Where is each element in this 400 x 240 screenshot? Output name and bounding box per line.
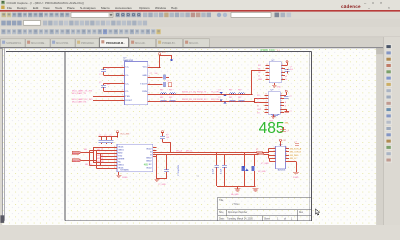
svg-text:Tools: Tools	[55, 6, 63, 10]
svg-text:8: 8	[266, 94, 267, 96]
svg-text:×: ×	[380, 1, 382, 5]
svg-text:DE/RE: DE/RE	[118, 158, 125, 160]
svg-text:FB?: FB?	[160, 97, 163, 99]
svg-text:cādence: cādence	[341, 4, 361, 9]
svg-text:VD_GND: VD_GND	[258, 171, 267, 173]
svg-text:RS232_TX_232: RS232_TX_232	[182, 92, 197, 94]
junction cap top	[170, 59, 172, 61]
svg-text:3: 3	[154, 153, 155, 155]
TVS diode D3	[244, 152, 246, 166]
svg-text:C?: C?	[167, 80, 169, 82]
svg-text:DGND: DGND	[122, 177, 128, 179]
svg-text:485_RX: 485_RX	[73, 161, 81, 163]
svg-text:MCU-CORE..: MCU-CORE..	[31, 42, 46, 45]
capacitor C1 (charge pump)	[103, 67, 124, 69]
svg-text:8: 8	[154, 150, 155, 152]
wire arc under U3	[272, 114, 279, 116]
svg-text:Sheet: Sheet	[264, 217, 270, 220]
svg-text:C?: C?	[104, 135, 106, 137]
svg-text:4: 4	[267, 75, 268, 77]
svg-text:1: 1	[266, 111, 267, 113]
capacitor C9 + pullup block above bus	[170, 142, 172, 152]
svg-text:6: 6	[266, 108, 267, 110]
svg-text:□: □	[372, 1, 374, 5]
svg-text:VDD1: VDD1	[118, 146, 124, 148]
wire mesh left of U4	[93, 148, 95, 163]
ferrite bead FB8	[239, 100, 245, 101]
svg-text:485: 485	[144, 163, 149, 166]
U3 right pins	[280, 95, 284, 97]
svg-text:R1IN: R1IN	[142, 91, 147, 93]
U5 right pins	[286, 148, 290, 150]
svg-text:V?_GND: V?_GND	[261, 163, 269, 165]
wire 485_TX	[81, 152, 93, 154]
svg-text:0.1uF: 0.1uF	[220, 168, 222, 174]
svg-text:7: 7	[266, 101, 267, 103]
U4 U5 pin numbers	[114, 146, 287, 169]
series resistors R1 R2 on bus	[257, 151, 263, 153]
capacitor C2 (charge pump)	[103, 83, 124, 85]
capacitor C8 right of U3	[284, 109, 287, 111]
U3 left pins	[264, 95, 268, 97]
ferrite bead FB2	[170, 93, 176, 94]
svg-text:MCU-POW..: MCU-POW..	[56, 42, 69, 45]
TVS diode D1	[220, 92, 223, 94]
svg-text:FB?: FB?	[238, 97, 241, 99]
svg-text:485_RX: 485_RX	[97, 155, 104, 157]
wire U5 pgnd	[289, 161, 296, 163]
ferrite bead FB7	[230, 100, 236, 101]
svg-text:C? 104/50V: C? 104/50V	[178, 164, 180, 176]
svg-text:Design: Design	[17, 6, 27, 10]
svg-text:6: 6	[154, 156, 155, 158]
svg-text:Size: Size	[219, 212, 224, 214]
svg-text:RS232_RX: RS232_RX	[197, 99, 207, 101]
svg-text:8: 8	[267, 78, 268, 80]
capacitor C10 below bus with ground	[156, 154, 158, 179]
svg-text:104: 104	[155, 73, 158, 75]
svg-text:Edit: Edit	[33, 6, 38, 10]
svg-text:485_B: 485_B	[186, 150, 192, 152]
svg-text:3: 3	[266, 97, 267, 99]
ground rail bottom	[217, 186, 254, 188]
svg-text:Title: Title	[219, 199, 224, 202]
svg-text:485_ON: 485_ON	[97, 161, 104, 163]
svg-text:File: File	[7, 6, 12, 10]
svg-text:485: 485	[259, 120, 285, 137]
ferrite bead FB1	[161, 93, 167, 94]
wire riser to U3	[254, 99, 256, 102]
decoupling capacitor C11	[216, 152, 218, 165]
svg-text:VA_GND: VA_GND	[231, 193, 239, 196]
TVS diode D2	[220, 99, 223, 101]
U2 vcc + capacitor C6	[285, 65, 287, 67]
ground PGND	[293, 171, 299, 173]
svg-text:D?: D?	[219, 90, 221, 92]
decoupling capacitor C12	[224, 154, 226, 165]
U2 U3 pin numbers	[266, 64, 284, 113]
off-page connector 485_TX	[72, 151, 81, 154]
svg-text:GND: GND	[277, 86, 282, 88]
decoupling capacitors above U4	[99, 136, 118, 138]
VCC power symbol	[159, 53, 161, 55]
svg-text:C?: C?	[289, 111, 291, 113]
capacitor C14 right of U5 top	[295, 143, 299, 145]
svg-text:C?: C?	[99, 82, 101, 84]
svg-text:C?: C?	[287, 131, 289, 133]
mouse cursor	[315, 209, 320, 215]
svg-text:485_DE: 485_DE	[97, 158, 104, 160]
svg-text:5: 5	[267, 68, 268, 70]
U2 left pins	[265, 65, 269, 67]
U1 pin numbers	[122, 66, 150, 102]
svg-text:FB?: FB?	[169, 97, 172, 99]
ground U3	[273, 114, 275, 116]
capacitor C10	[166, 154, 168, 169]
svg-text:PROGRAM-M..: PROGRAM-M..	[106, 41, 125, 45]
svg-text:RXD: RXD	[118, 152, 123, 154]
power +3V3	[117, 133, 119, 137]
svg-text:MCU_UART_RX: MCU_UART_RX	[72, 101, 87, 104]
svg-text:RS232_TX: RS232_TX	[197, 92, 207, 94]
IC U1 MAX3232	[125, 62, 148, 105]
svg-text:GND: GND	[142, 75, 147, 77]
svg-text:Place: Place	[67, 6, 75, 10]
svg-text:VCC: VCC	[162, 52, 167, 54]
ground rail second symbol	[254, 186, 255, 188]
svg-text:FB?: FB?	[169, 90, 172, 92]
svg-text:<Title>: <Title>	[232, 202, 240, 206]
svg-text:GND: GND	[258, 79, 263, 81]
svg-text:C1-: C1-	[125, 75, 129, 77]
svg-text:R?: R?	[166, 134, 168, 136]
capacitor C3	[148, 77, 163, 79]
svg-text:2: 2	[267, 64, 268, 66]
wire MCU_UART_TX	[93, 96, 125, 98]
svg-text:MCU-IO..: MCU-IO..	[189, 42, 199, 45]
svg-text:FB?: FB?	[229, 97, 232, 99]
svg-text:C?_GND: C?_GND	[158, 184, 166, 186]
svg-text:S-Analyses: S-Analyses	[80, 6, 96, 10]
svg-text:T1IN: T1IN	[125, 96, 130, 98]
svg-text:485_RO: 485_RO	[85, 164, 93, 166]
svg-text:485_A: 485_A	[176, 149, 182, 152]
svg-text:C?: C?	[99, 74, 101, 76]
svg-text:Cs: Cs	[197, 175, 199, 177]
junction dots	[169, 152, 170, 153]
svg-text:RS232_RX_232: RS232_RX_232	[182, 99, 197, 101]
svg-text:OrCAD Capture - [/ - (MCU : PR: OrCAD Capture - [/ - (MCU : PROGRAM-MCU-…	[7, 1, 84, 5]
svg-text:View: View	[43, 6, 50, 10]
svg-text:VDD2: VDD2	[146, 168, 152, 170]
svg-text:Tuesday, March 24, 2020: Tuesday, March 24, 2020	[227, 217, 254, 220]
IC U5 isolated transceiver	[276, 146, 286, 168]
svg-text:485_CON_A: 485_CON_A	[290, 147, 302, 150]
sheet left border	[64, 51, 66, 220]
svg-text:3: 3	[149, 100, 150, 102]
svg-text:R?: R?	[256, 149, 258, 151]
svg-text:C?: C?	[99, 135, 101, 137]
U1 right pins	[148, 67, 151, 69]
svg-text:485_TX: 485_TX	[73, 153, 80, 155]
svg-text:GND2: GND2	[146, 161, 152, 163]
svg-text:RS485_CON: RS485_CON	[261, 49, 275, 52]
svg-text:104: 104	[107, 68, 110, 70]
svg-text:MCU-AD..: MCU-AD..	[135, 42, 146, 45]
svg-text:C?: C?	[289, 96, 291, 98]
svg-text:POWER-5V..: POWER-5V..	[162, 42, 176, 45]
net label V_GND left	[269, 158, 271, 161]
svg-text:Window: Window	[155, 6, 167, 10]
svg-text:485: 485	[84, 149, 87, 151]
svg-text:–: –	[368, 6, 370, 10]
svg-text:VCC: VCC	[143, 67, 148, 69]
svg-text:PGND: PGND	[293, 177, 299, 179]
wire RS232 RX line	[151, 101, 254, 103]
svg-text:104: 104	[107, 84, 110, 86]
ground U2	[274, 83, 276, 85]
svg-text:2: 2	[266, 104, 267, 106]
IC U2 (485 driver)	[269, 62, 281, 83]
svg-text:C?: C?	[109, 135, 111, 137]
ferrite bead FB3	[230, 93, 236, 94]
svg-text:GND: GND	[257, 109, 262, 111]
svg-text:TX_CON: TX_CON	[211, 92, 219, 94]
svg-text:VCC_3V3: VCC_3V3	[120, 133, 130, 135]
svg-text:Options: Options	[139, 6, 150, 10]
sheet top border	[6, 50, 312, 52]
IC U3 (485 receiver)	[268, 92, 280, 115]
svg-text:GND1: GND1	[118, 164, 124, 166]
svg-text:Help: Help	[171, 6, 178, 10]
wire MCU_UART_RX	[93, 100, 125, 102]
svg-text:485_CON_B: 485_CON_B	[290, 152, 302, 154]
U3 vcc + capacitor C7	[284, 95, 286, 97]
wire RS232 TX line	[151, 94, 252, 96]
svg-text:SCHEMATIC1: SCHEMATIC1	[6, 42, 22, 45]
title block	[218, 197, 312, 220]
power VCC top	[148, 67, 160, 69]
svg-text:SIT3485: SIT3485	[120, 169, 129, 171]
off-page connector 485_RX	[72, 159, 81, 162]
svg-text:T1OUT: T1OUT	[140, 83, 147, 85]
wire 485 A line	[156, 152, 268, 154]
svg-text:GND1: GND1	[118, 149, 124, 151]
TVS diode D4	[254, 154, 256, 166]
svg-text:RX_CON: RX_CON	[211, 99, 220, 101]
svg-text:R1OUT: R1OUT	[125, 100, 133, 102]
U1 left pins	[121, 67, 124, 69]
svg-text:FB?: FB?	[229, 90, 232, 92]
wire 485_RX	[81, 160, 96, 162]
svg-text:Accessories: Accessories	[115, 6, 132, 10]
svg-text:B0505S: B0505S	[278, 170, 286, 172]
capacitor C5 (V-)	[148, 84, 163, 86]
svg-text:Macro: Macro	[101, 6, 110, 10]
ground C10	[154, 178, 159, 180]
svg-text:1: 1	[267, 71, 268, 73]
U4 right pins	[153, 147, 157, 149]
wire bus join U5	[268, 149, 270, 153]
wire riser to U2	[251, 70, 253, 94]
svg-text:485_GND: 485_GND	[290, 155, 299, 157]
svg-text:C2-: C2-	[125, 91, 129, 93]
svg-text:Date:: Date:	[219, 217, 225, 220]
svg-text:TXD: TXD	[118, 155, 123, 157]
svg-text:485_5V: 485_5V	[290, 158, 298, 160]
capacitor C13 between stages	[280, 129, 286, 131]
svg-text:VDD2: VDD2	[146, 148, 152, 150]
svg-text:5: 5	[149, 93, 150, 95]
ground U4	[118, 172, 120, 175]
svg-text:485_TX: 485_TX	[97, 149, 104, 151]
IC U4 SIT3485	[117, 144, 153, 172]
U5 left pins	[268, 148, 275, 150]
U4 left pins	[114, 147, 117, 149]
sheet bottom border	[65, 220, 312, 222]
svg-text:FB?: FB?	[160, 90, 163, 92]
U2 right pins	[281, 65, 285, 67]
ferrite bead FB5	[161, 100, 167, 101]
svg-text:C?: C?	[294, 141, 296, 143]
sheet right border	[311, 51, 313, 220]
svg-text:C?: C?	[150, 73, 152, 75]
svg-text:104: 104	[290, 69, 293, 71]
svg-text:PROGRAM..: PROGRAM..	[81, 42, 95, 45]
ferrite bead FB6	[170, 100, 176, 101]
svg-text:MCU_UART_TX: MCU_UART_TX	[72, 92, 87, 95]
svg-text:5: 5	[154, 147, 155, 149]
power VCC U5 top	[280, 141, 282, 146]
svg-text:MAX3232: MAX3232	[124, 59, 134, 62]
svg-text:0.1uF: 0.1uF	[213, 168, 215, 174]
svg-text:×: ×	[388, 6, 390, 10]
svg-text:FB?: FB?	[238, 90, 241, 92]
capacitor C4	[162, 82, 164, 87]
wire 485 B line	[156, 154, 268, 156]
ferrite bead FB4	[239, 93, 245, 94]
svg-text:GND2: GND2	[146, 157, 152, 159]
svg-text:Document Number: Document Number	[228, 211, 248, 214]
